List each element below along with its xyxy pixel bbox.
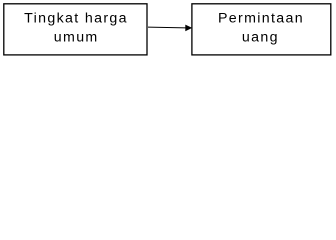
svg-text:Tingkat harga: Tingkat harga [24,11,128,27]
svg-text:umum: umum [54,30,99,46]
svg-text:Permintaan: Permintaan [218,11,304,27]
svg-text:uang: uang [242,30,279,46]
